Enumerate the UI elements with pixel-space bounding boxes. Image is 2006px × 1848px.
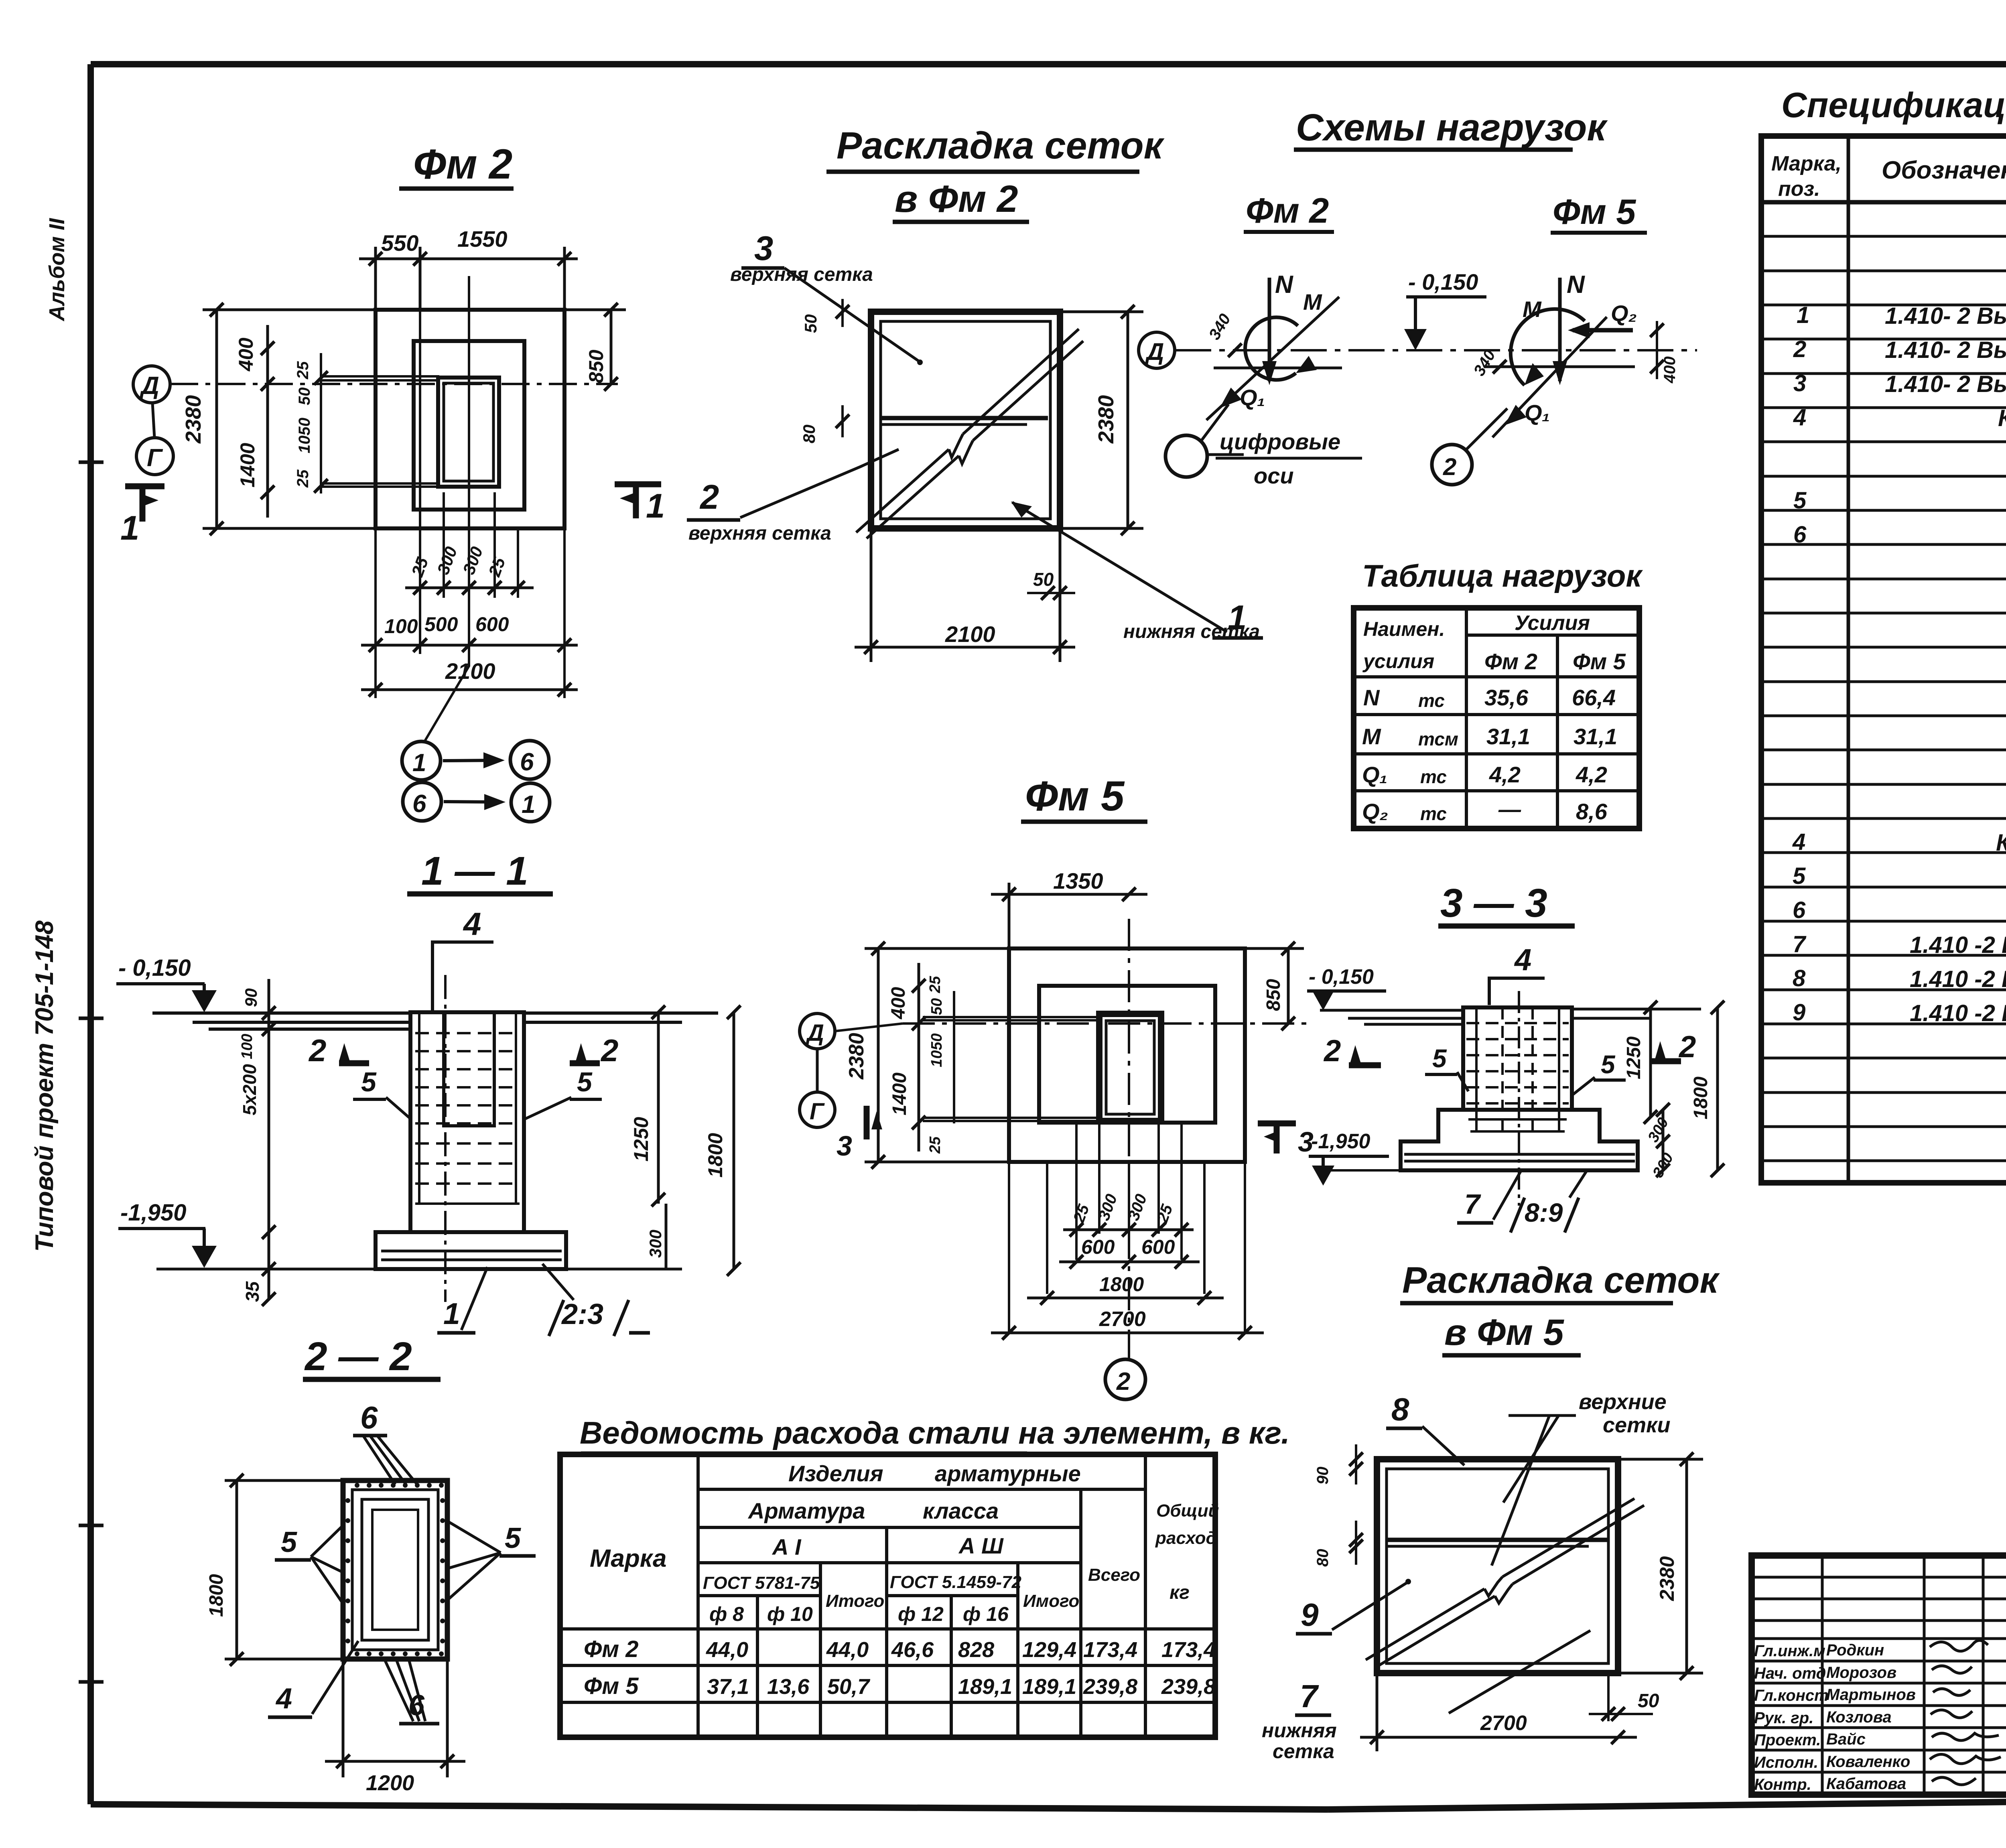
svg-text:N: N bbox=[1363, 685, 1380, 710]
mesh square inner bbox=[1387, 1469, 1608, 1663]
svg-text:Q₂: Q₂ bbox=[1362, 799, 1388, 824]
svg-text:850: 850 bbox=[585, 349, 607, 383]
svg-text:тс: тс bbox=[1418, 690, 1445, 711]
svg-text:Раскладка сеток: Раскладка сеток bbox=[837, 124, 1165, 167]
svg-text:7: 7 bbox=[1300, 1678, 1319, 1714]
svg-text:3: 3 bbox=[837, 1130, 852, 1162]
svg-text:Фм 2: Фм 2 bbox=[584, 1636, 639, 1662]
svg-text:400: 400 bbox=[888, 987, 909, 1019]
svg-text:1: 1 bbox=[522, 791, 535, 818]
svg-text:1: 1 bbox=[443, 1297, 460, 1330]
axis circle 2 bbox=[1105, 1359, 1145, 1399]
svg-text:Д: Д bbox=[139, 372, 159, 400]
svg-text:Фм 5: Фм 5 bbox=[1573, 649, 1626, 674]
middle step square bbox=[414, 341, 524, 510]
svg-text:N: N bbox=[1567, 271, 1585, 299]
svg-text:ф 16: ф 16 bbox=[963, 1603, 1009, 1625]
svg-text:Фм 5: Фм 5 bbox=[584, 1673, 639, 1699]
svg-text:верхние: верхние bbox=[1579, 1390, 1667, 1414]
right dim 850 bbox=[564, 310, 626, 384]
svg-text:Фм 2: Фм 2 bbox=[1246, 191, 1329, 230]
rebar leader double lines bbox=[923, 1017, 1099, 1121]
svg-text:1.410 -2 Вып. 1: 1.410 -2 Вып. 1 bbox=[1910, 966, 2006, 992]
reinforcing mesh in stem bbox=[415, 1012, 520, 1204]
left dim 2380 bbox=[865, 948, 1009, 1162]
svg-text:поз.: поз. bbox=[1778, 177, 1820, 201]
svg-text:5х200: 5х200 bbox=[239, 1064, 260, 1115]
svg-text:- 0,150: - 0,150 bbox=[1408, 269, 1478, 294]
svg-text:50: 50 bbox=[1033, 569, 1054, 590]
svg-text:тсм: тсм bbox=[1418, 729, 1458, 749]
svg-text:7: 7 bbox=[1793, 931, 1807, 957]
svg-text:80: 80 bbox=[1314, 1549, 1332, 1567]
svg-text:5: 5 bbox=[281, 1526, 297, 1558]
svg-text:1800: 1800 bbox=[1690, 1076, 1712, 1119]
svg-text:25: 25 bbox=[294, 469, 312, 488]
svg-text:-1,950: -1,950 bbox=[120, 1200, 186, 1226]
axis circle Д bbox=[1139, 332, 1175, 368]
axes bbox=[835, 1024, 903, 1031]
svg-text:Типовой проект 705-1-148: Типовой проект 705-1-148 bbox=[30, 920, 59, 1252]
left dim column bbox=[268, 979, 270, 1300]
svg-text:Д: Д bbox=[805, 1020, 824, 1046]
svg-text:Изделия: Изделия bbox=[788, 1461, 883, 1486]
svg-text:2: 2 bbox=[1116, 1368, 1130, 1395]
svg-text:600: 600 bbox=[1141, 1236, 1175, 1258]
column lines bbox=[1848, 136, 2006, 1183]
svg-text:1 — 1: 1 — 1 bbox=[421, 849, 528, 894]
svg-text:Q₁: Q₁ bbox=[1525, 400, 1550, 425]
svg-text:1200: 1200 bbox=[366, 1771, 414, 1795]
svg-text:2: 2 bbox=[1443, 453, 1456, 480]
svg-text:Г: Г bbox=[810, 1099, 825, 1125]
svg-text:66,4: 66,4 bbox=[1572, 685, 1616, 710]
svg-text:8: 8 bbox=[1793, 965, 1806, 991]
svg-text:А Ш: А Ш bbox=[958, 1533, 1004, 1558]
svg-text:—: — bbox=[1498, 796, 1521, 822]
svg-text:нижняя сетка: нижняя сетка bbox=[1123, 621, 1260, 642]
svg-text:тс: тс bbox=[1420, 766, 1447, 787]
right dims bbox=[657, 1012, 660, 1204]
svg-text:КЖИ-С1: КЖИ-С1 bbox=[1998, 405, 2006, 431]
svg-text:1.410 -2 Вып. 1: 1.410 -2 Вып. 1 bbox=[1910, 932, 2006, 958]
svg-text:Морозов: Морозов bbox=[1826, 1664, 1896, 1681]
svg-text:2380: 2380 bbox=[181, 395, 205, 444]
header bottom bbox=[1761, 200, 2006, 205]
svg-text:-1,950: -1,950 bbox=[1311, 1130, 1370, 1153]
svg-text:25: 25 bbox=[294, 361, 312, 380]
ground lines bbox=[1320, 1009, 1701, 1024]
left dim 2380 bbox=[203, 310, 376, 528]
svg-text:35: 35 bbox=[242, 1281, 263, 1302]
svg-text:8: 8 bbox=[1391, 1391, 1409, 1427]
svg-text:1350: 1350 bbox=[1053, 868, 1103, 894]
svg-text:44,0: 44,0 bbox=[706, 1638, 748, 1662]
svg-text:25: 25 bbox=[927, 976, 944, 993]
svg-text:2 — 2: 2 — 2 bbox=[304, 1334, 412, 1379]
svg-text:Кабатова: Кабатова bbox=[1826, 1775, 1906, 1793]
svg-text:5: 5 bbox=[1793, 487, 1807, 514]
section mark 1 right bbox=[615, 484, 661, 518]
Fm5 load scheme bbox=[1558, 278, 1562, 381]
svg-text:ГОСТ 5781-75: ГОСТ 5781-75 bbox=[703, 1573, 820, 1593]
stepped base profile bbox=[1401, 1110, 1638, 1170]
svg-text:6: 6 bbox=[1793, 897, 1806, 923]
svg-text:кг: кг bbox=[1169, 1582, 1190, 1603]
dim 2380 right bbox=[1060, 312, 1143, 528]
svg-text:арматурные: арматурные bbox=[935, 1461, 1081, 1486]
svg-text:600: 600 bbox=[475, 613, 509, 636]
svg-text:3 — 3: 3 — 3 bbox=[1440, 881, 1547, 926]
svg-text:Имого: Имого bbox=[1023, 1591, 1079, 1611]
vertical axis line bbox=[424, 276, 469, 742]
svg-text:1050: 1050 bbox=[928, 1033, 945, 1067]
svg-text:1.410- 2 Вып. 1: 1.410- 2 Вып. 1 bbox=[1885, 303, 2006, 329]
svg-text:828: 828 bbox=[958, 1638, 994, 1662]
svg-text:Всего: Всего bbox=[1088, 1565, 1140, 1585]
svg-text:1250: 1250 bbox=[630, 1117, 652, 1162]
svg-text:6: 6 bbox=[412, 790, 426, 818]
svg-text:усилия: усилия bbox=[1362, 650, 1434, 672]
svg-text:расход: расход bbox=[1155, 1528, 1217, 1548]
section mark 1 left bbox=[125, 486, 164, 522]
svg-text:2:3: 2:3 bbox=[561, 1298, 603, 1330]
svg-text:8,6: 8,6 bbox=[1576, 799, 1608, 824]
svg-text:400: 400 bbox=[235, 337, 257, 372]
svg-text:4,2: 4,2 bbox=[1489, 762, 1521, 787]
svg-text:189,1: 189,1 bbox=[1022, 1675, 1076, 1699]
svg-text:Исполн.: Исполн. bbox=[1754, 1754, 1818, 1771]
svg-text:1050: 1050 bbox=[296, 418, 313, 453]
dim 1800 left bbox=[225, 1480, 343, 1659]
svg-text:Альбом II: Альбом II bbox=[45, 218, 69, 322]
svg-text:Нач. отд: Нач. отд bbox=[1754, 1665, 1826, 1682]
bar-end dots bbox=[345, 1483, 445, 1656]
svg-text:5: 5 bbox=[1793, 863, 1806, 889]
svg-text:1.410 -2 Вып.1: 1.410 -2 Вып.1 bbox=[1910, 1000, 2006, 1026]
svg-text:М: М bbox=[1303, 289, 1322, 315]
svg-text:5: 5 bbox=[505, 1522, 521, 1554]
outer footprint bbox=[1009, 948, 1245, 1162]
цифровые оси circle bbox=[1165, 435, 1207, 477]
svg-text:9: 9 bbox=[1793, 999, 1805, 1026]
svg-text:500: 500 bbox=[424, 613, 458, 636]
svg-text:Общий: Общий bbox=[1156, 1501, 1219, 1521]
svg-text:М: М bbox=[1362, 724, 1381, 749]
svg-text:в Фм 5: в Фм 5 bbox=[1444, 1312, 1565, 1353]
svg-text:239,8: 239,8 bbox=[1161, 1675, 1216, 1699]
svg-text:189,1: 189,1 bbox=[958, 1675, 1012, 1699]
center axis bbox=[1518, 991, 1520, 1206]
svg-text:44,0: 44,0 bbox=[826, 1638, 869, 1662]
svg-text:239,8: 239,8 bbox=[1083, 1675, 1137, 1699]
mesh square outer bbox=[1377, 1459, 1618, 1673]
svg-text:тс: тс bbox=[1420, 803, 1447, 824]
right dim 850 bbox=[1245, 948, 1304, 1024]
column cup outer bbox=[438, 378, 499, 487]
svg-text:1400: 1400 bbox=[236, 443, 259, 487]
svg-text:35,6: 35,6 bbox=[1484, 685, 1529, 710]
mesh plan rects bbox=[343, 1480, 447, 1659]
signature squiggles bbox=[1930, 1641, 2001, 1785]
svg-text:2: 2 bbox=[1793, 336, 1806, 362]
svg-text:50: 50 bbox=[1638, 1690, 1659, 1712]
svg-text:31,1: 31,1 bbox=[1486, 724, 1530, 749]
svg-text:2100: 2100 bbox=[945, 621, 995, 647]
svg-text:КЖИ-С1: КЖИ-С1 bbox=[1996, 830, 2006, 856]
svg-text:Наимен.: Наимен. bbox=[1363, 618, 1445, 640]
svg-text:2: 2 bbox=[600, 1033, 618, 1068]
svg-text:1800: 1800 bbox=[206, 1574, 227, 1617]
svg-text:сетки: сетки bbox=[1603, 1413, 1670, 1437]
svg-text:6: 6 bbox=[1793, 522, 1807, 548]
axis circle Г bbox=[136, 438, 173, 475]
svg-text:4: 4 bbox=[275, 1683, 292, 1715]
ground lines bbox=[152, 1013, 718, 1029]
svg-text:ГОСТ 5.1459-72: ГОСТ 5.1459-72 bbox=[890, 1572, 1022, 1592]
svg-text:4: 4 bbox=[1514, 943, 1531, 977]
mesh order circles 1->6 / 6->1 bbox=[402, 741, 441, 780]
svg-text:1800: 1800 bbox=[704, 1133, 727, 1178]
svg-text:50: 50 bbox=[928, 998, 945, 1015]
svg-text:Ведомость расхода стали на: Ведомость расхода стали на элемент, в кг… bbox=[580, 1415, 1290, 1450]
svg-text:Q₂: Q₂ bbox=[1611, 301, 1637, 326]
table frame bbox=[1761, 136, 2006, 1183]
svg-text:1: 1 bbox=[1797, 302, 1809, 328]
outer footprint square bbox=[376, 310, 564, 528]
svg-text:Арматура: Арматура bbox=[747, 1498, 865, 1523]
svg-text:Q₁: Q₁ bbox=[1362, 762, 1387, 787]
signature names bbox=[1754, 1641, 1916, 1793]
svg-text:Вайс: Вайс bbox=[1826, 1730, 1866, 1748]
center axis of section bbox=[444, 975, 447, 1302]
svg-text:2: 2 bbox=[699, 478, 719, 516]
table frame bbox=[560, 1454, 1215, 1737]
svg-text:4: 4 bbox=[463, 906, 481, 942]
rebar leader double lines bbox=[321, 376, 439, 487]
svg-text:2380: 2380 bbox=[1656, 1556, 1678, 1601]
svg-text:600: 600 bbox=[1081, 1236, 1115, 1258]
svg-text:Марка: Марка bbox=[590, 1545, 666, 1572]
svg-text:1: 1 bbox=[412, 749, 426, 777]
row lines bbox=[1761, 236, 2006, 1161]
svg-text:Обозначение: Обозначение bbox=[1882, 156, 2006, 184]
svg-text:класса: класса bbox=[923, 1498, 999, 1523]
svg-text:3: 3 bbox=[1793, 370, 1806, 396]
svg-text:173,4: 173,4 bbox=[1083, 1638, 1137, 1662]
svg-text:верхняя сетка: верхняя сетка bbox=[688, 523, 831, 544]
svg-text:1: 1 bbox=[120, 509, 139, 547]
svg-text:Фм 5: Фм 5 bbox=[1025, 773, 1125, 820]
stem with mesh bbox=[1463, 1007, 1572, 1110]
svg-text:37,1: 37,1 bbox=[707, 1675, 749, 1699]
svg-text:Итого: Итого bbox=[826, 1591, 884, 1611]
svg-text:N: N bbox=[1275, 271, 1293, 299]
svg-text:2100: 2100 bbox=[445, 658, 495, 684]
svg-text:850: 850 bbox=[1263, 979, 1284, 1011]
svg-text:А I: А I bbox=[772, 1534, 802, 1560]
svg-text:2700: 2700 bbox=[1480, 1712, 1527, 1735]
svg-text:50,7: 50,7 bbox=[827, 1675, 871, 1699]
svg-text:1400: 1400 bbox=[889, 1072, 910, 1115]
middle step bbox=[1039, 986, 1215, 1123]
svg-text:Контр.: Контр. bbox=[1754, 1776, 1811, 1793]
svg-text:Спецификация к фундаментам Ф: Спецификация к фундаментам Фм 2, Фм 5 bbox=[1781, 85, 2006, 125]
svg-text:8:9: 8:9 bbox=[1525, 1198, 1563, 1227]
svg-text:2700: 2700 bbox=[1099, 1308, 1146, 1331]
svg-text:3: 3 bbox=[754, 229, 773, 268]
svg-text:- 0,150: - 0,150 bbox=[118, 955, 191, 981]
svg-text:1.410- 2 Вып. 1: 1.410- 2 Вып. 1 bbox=[1885, 371, 2006, 397]
svg-text:1: 1 bbox=[646, 487, 665, 525]
svg-text:7: 7 bbox=[1464, 1188, 1481, 1220]
svg-text:Фм 2: Фм 2 bbox=[413, 141, 512, 188]
svg-text:Раскладка сеток: Раскладка сеток bbox=[1402, 1260, 1720, 1301]
svg-text:550: 550 bbox=[381, 230, 418, 256]
svg-text:50: 50 bbox=[296, 388, 313, 406]
svg-text:400: 400 bbox=[1661, 356, 1679, 384]
mesh square inner bbox=[881, 321, 1050, 519]
signature table bbox=[1752, 1556, 2006, 1795]
axis circle Д bbox=[133, 366, 170, 403]
svg-text:90: 90 bbox=[1314, 1467, 1332, 1485]
svg-text:50: 50 bbox=[801, 314, 820, 333]
dim 400 right of scheme bbox=[1656, 321, 1658, 379]
svg-text:4,2: 4,2 bbox=[1576, 762, 1607, 787]
svg-text:6: 6 bbox=[520, 748, 534, 776]
svg-text:5: 5 bbox=[1601, 1050, 1616, 1079]
svg-text:Мартынов: Мартынов bbox=[1826, 1686, 1916, 1704]
svg-text:Г: Г bbox=[147, 444, 163, 472]
svg-text:100: 100 bbox=[384, 615, 418, 638]
svg-text:Фм 2: Фм 2 bbox=[1484, 649, 1537, 674]
svg-text:46,6: 46,6 bbox=[891, 1638, 934, 1662]
svg-text:5: 5 bbox=[361, 1067, 377, 1097]
diagonal mesh band bbox=[856, 329, 1083, 538]
svg-text:- 0,150: - 0,150 bbox=[1309, 965, 1374, 989]
svg-text:нижняя: нижняя bbox=[1262, 1719, 1337, 1742]
svg-text:5: 5 bbox=[1432, 1044, 1447, 1073]
svg-text:Гл.инж.м: Гл.инж.м bbox=[1754, 1642, 1825, 1660]
svg-text:2: 2 bbox=[308, 1033, 326, 1068]
svg-text:9: 9 bbox=[1301, 1597, 1319, 1633]
dims 400 1400 bbox=[918, 963, 920, 1151]
svg-text:ф 12: ф 12 bbox=[898, 1603, 944, 1625]
svg-text:Q₁: Q₁ bbox=[1240, 385, 1265, 410]
svg-text:верхняя сетка: верхняя сетка bbox=[730, 264, 873, 285]
svg-text:6: 6 bbox=[360, 1400, 378, 1435]
axis circles Д Г bbox=[800, 1013, 835, 1049]
fold tick marks on left border bbox=[79, 462, 104, 1682]
svg-text:80: 80 bbox=[800, 424, 818, 443]
svg-text:1800: 1800 bbox=[1099, 1273, 1144, 1296]
svg-text:Фм 5: Фм 5 bbox=[1553, 192, 1636, 232]
svg-text:31,1: 31,1 bbox=[1574, 724, 1617, 749]
dim 2380 right bbox=[1618, 1459, 1703, 1673]
axis Д line bbox=[1175, 349, 1697, 351]
svg-text:ф 8: ф 8 bbox=[709, 1603, 744, 1625]
dim 1200 bottom bbox=[325, 1659, 465, 1777]
svg-text:1250: 1250 bbox=[1623, 1036, 1645, 1079]
svg-text:2: 2 bbox=[1323, 1034, 1341, 1068]
right dims bbox=[1649, 1007, 1652, 1117]
svg-text:Схемы нагрузок: Схемы нагрузок bbox=[1296, 106, 1608, 149]
inner divider (mesh 2 edge) bbox=[881, 416, 1048, 420]
cup inner bbox=[444, 1012, 494, 1126]
svg-text:173,4: 173,4 bbox=[1161, 1638, 1216, 1662]
bottom extension lines bbox=[376, 265, 564, 698]
dims 400 / 1400 bbox=[266, 325, 269, 518]
svg-text:1550: 1550 bbox=[457, 226, 508, 252]
diagonal band bbox=[1366, 1499, 1644, 1667]
bottom extension lines from cup bbox=[1009, 1121, 1245, 1332]
svg-text:2380: 2380 bbox=[845, 1033, 868, 1080]
svg-text:1.410- 2 Вып. 1: 1.410- 2 Вып. 1 bbox=[1885, 337, 2006, 363]
mesh square outer bbox=[871, 312, 1060, 528]
svg-text:оси: оси bbox=[1254, 463, 1294, 488]
svg-text:2380: 2380 bbox=[1094, 395, 1118, 444]
svg-text:25: 25 bbox=[927, 1136, 944, 1154]
svg-text:Марка,: Марка, bbox=[1771, 152, 1842, 175]
divider bbox=[1387, 1538, 1608, 1542]
svg-text:5: 5 bbox=[577, 1067, 593, 1097]
svg-text:ф 10: ф 10 bbox=[767, 1603, 813, 1625]
svg-text:Усилия: Усилия bbox=[1515, 611, 1590, 635]
svg-text:129,4: 129,4 bbox=[1022, 1638, 1076, 1662]
svg-text:13,6: 13,6 bbox=[767, 1675, 810, 1699]
svg-text:Козлова: Козлова bbox=[1826, 1708, 1892, 1726]
svg-text:4: 4 bbox=[1793, 404, 1806, 431]
svg-text:в Фм 2: в Фм 2 bbox=[895, 178, 1018, 220]
svg-text:Рук. гр.: Рук. гр. bbox=[1754, 1709, 1813, 1727]
svg-text:90: 90 bbox=[242, 988, 260, 1007]
column cup bbox=[1099, 1014, 1161, 1121]
svg-text:цифровые: цифровые bbox=[1220, 429, 1340, 454]
bottom slab bbox=[376, 1232, 566, 1269]
svg-text:300: 300 bbox=[646, 1230, 665, 1258]
svg-text:Гл.конст: Гл.конст bbox=[1754, 1687, 1829, 1704]
svg-text:Таблица нагрузок: Таблица нагрузок bbox=[1362, 558, 1643, 593]
stem of foundation bbox=[410, 1012, 524, 1232]
axis circle 2 with leader bbox=[1432, 445, 1472, 485]
svg-text:100: 100 bbox=[239, 1034, 256, 1059]
column cup inner bbox=[444, 383, 493, 481]
svg-text:сетка: сетка bbox=[1273, 1740, 1334, 1763]
svg-text:4: 4 bbox=[1792, 829, 1805, 855]
svg-text:Проект.: Проект. bbox=[1754, 1731, 1821, 1749]
svg-text:Родкин: Родкин bbox=[1826, 1641, 1884, 1659]
dim 2100 bottom bbox=[855, 528, 1075, 662]
horizontal axis Д dash-dot bbox=[170, 383, 618, 385]
svg-text:Коваленко: Коваленко bbox=[1826, 1753, 1910, 1771]
svg-text:Д: Д bbox=[1145, 338, 1164, 365]
Fm2 load scheme bbox=[1268, 278, 1271, 381]
